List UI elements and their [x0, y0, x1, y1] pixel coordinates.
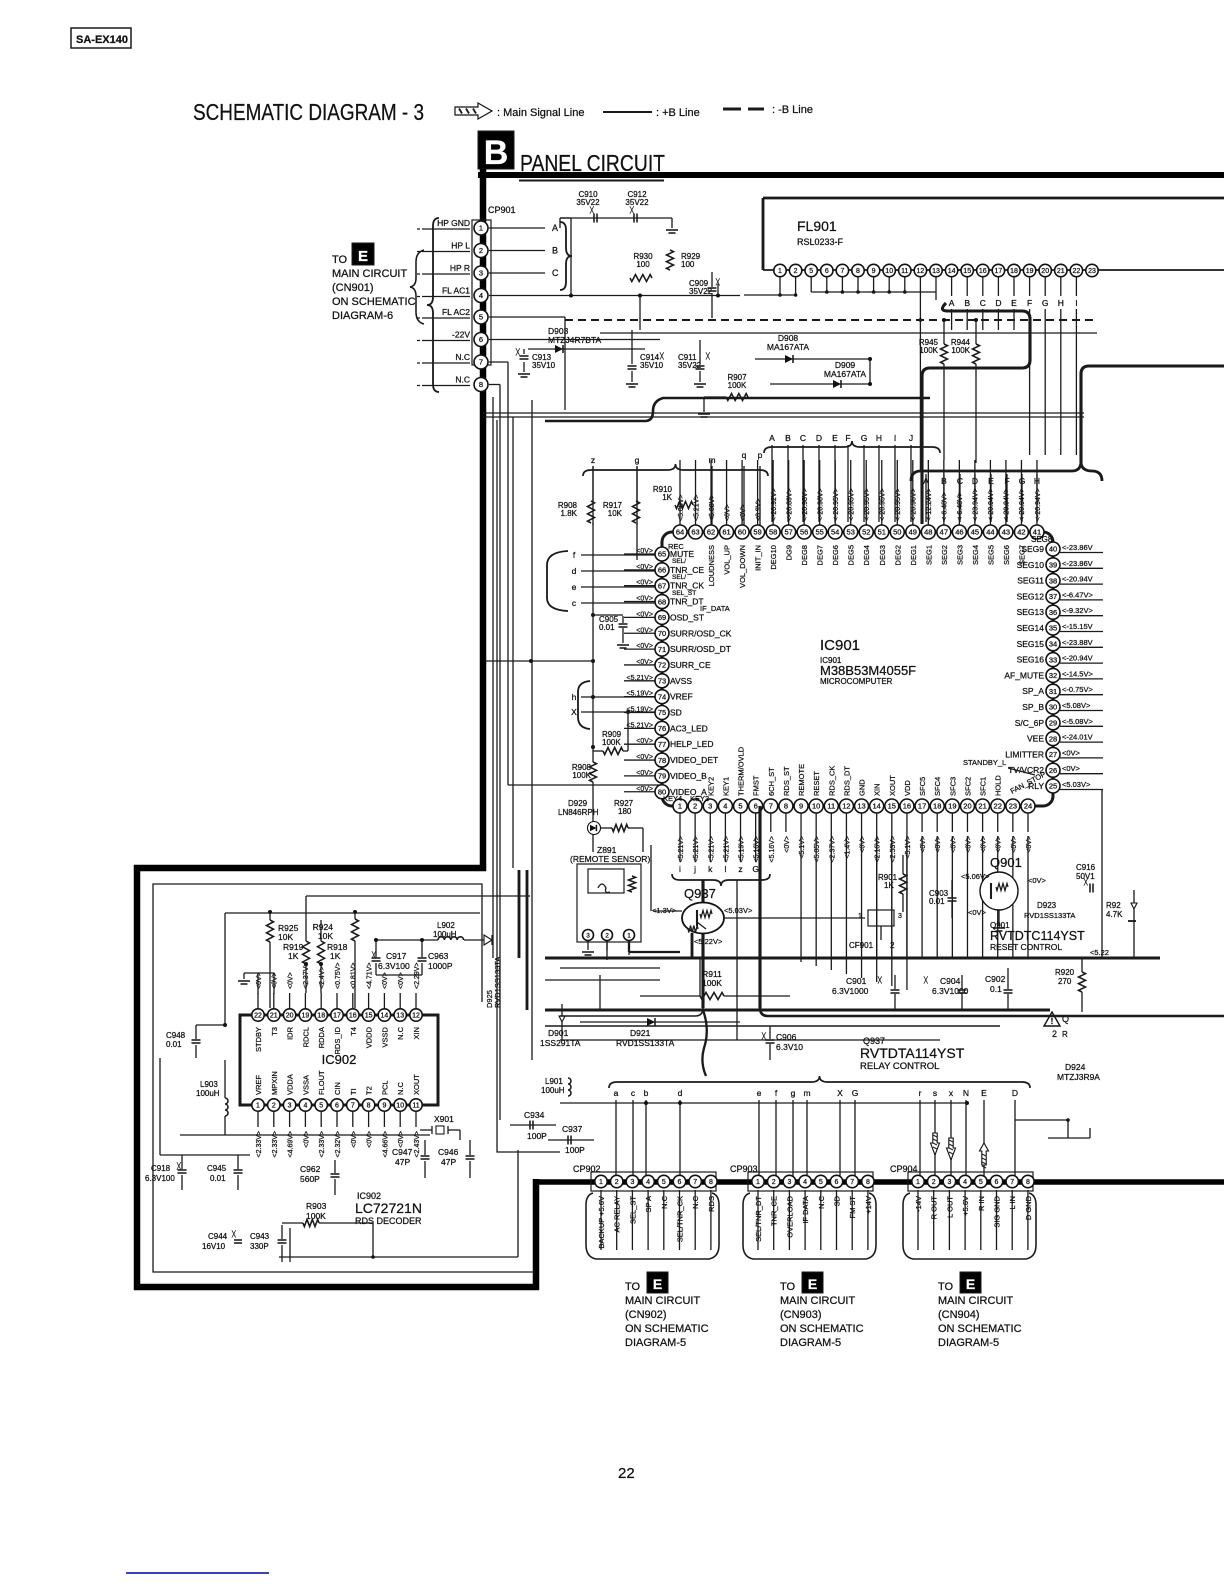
svg-text:<0V>: <0V> [287, 972, 294, 989]
svg-text:SEG16: SEG16 [1017, 655, 1045, 665]
svg-text:10K: 10K [318, 931, 333, 941]
svg-text:69: 69 [658, 613, 666, 622]
svg-text:5: 5 [479, 313, 483, 322]
svg-text:<0V>: <0V> [303, 1131, 310, 1148]
svg-text:╳: ╳ [923, 976, 928, 984]
svg-text:5: 5 [662, 1179, 666, 1186]
svg-text:l: l [724, 864, 726, 874]
svg-text:10K: 10K [278, 932, 293, 942]
svg-text:20: 20 [1041, 268, 1049, 275]
svg-text:5: 5 [319, 1103, 323, 1110]
svg-text:12: 12 [917, 268, 925, 275]
svg-text:R: R [1062, 1030, 1068, 1039]
svg-text:MAIN CIRCUIT: MAIN CIRCUIT [780, 1295, 855, 1307]
svg-text:1: 1 [858, 913, 862, 920]
svg-text:100K: 100K [951, 346, 970, 355]
svg-text:6: 6 [335, 1103, 339, 1110]
svg-text:<0V>: <0V> [351, 1131, 358, 1148]
svg-text:<0V>: <0V> [636, 643, 653, 650]
svg-text:<0V>: <0V> [636, 754, 653, 761]
svg-text:D929: D929 [568, 799, 588, 808]
svg-text:<0V>: <0V> [950, 836, 957, 853]
svg-text:42: 42 [1017, 528, 1025, 537]
svg-text:RDS_CK: RDS_CK [827, 766, 836, 796]
svg-text:2: 2 [932, 1179, 936, 1186]
svg-text:1K: 1K [662, 493, 672, 502]
svg-text:60: 60 [738, 528, 746, 537]
svg-text:C943: C943 [250, 1232, 270, 1241]
svg-text:<-20.95V>: <-20.95V> [895, 488, 902, 521]
svg-text:28: 28 [1049, 734, 1057, 743]
svg-text:LIMITTER: LIMITTER [1005, 749, 1044, 759]
svg-text:57: 57 [784, 528, 792, 537]
svg-text:5: 5 [738, 802, 742, 811]
svg-text:╳: ╳ [705, 352, 710, 360]
svg-text:5: 5 [979, 1179, 983, 1186]
svg-text:5: 5 [819, 1179, 823, 1186]
svg-text:╳: ╳ [231, 1230, 236, 1238]
svg-text:10: 10 [396, 1103, 404, 1110]
svg-text:g: g [635, 455, 640, 465]
svg-text:<2.37V>: <2.37V> [303, 963, 310, 989]
svg-text:I: I [1075, 298, 1077, 308]
svg-text:100K: 100K [702, 978, 722, 988]
svg-text:27: 27 [1049, 750, 1057, 759]
svg-text:j: j [693, 864, 696, 874]
svg-text:<0V>: <0V> [636, 580, 653, 587]
svg-text:<0V>: <0V> [636, 659, 653, 666]
svg-text:59: 59 [753, 528, 761, 537]
svg-text:2: 2 [479, 246, 483, 255]
svg-text:DEG4: DEG4 [862, 545, 871, 565]
svg-text:m: m [803, 1088, 810, 1098]
svg-text:45: 45 [971, 528, 979, 537]
svg-text:SD: SD [670, 708, 682, 718]
svg-text:<-23.86V: <-23.86V [1062, 559, 1093, 568]
svg-text:<-24.01V: <-24.01V [1062, 733, 1093, 742]
svg-text:RDS_DT: RDS_DT [842, 766, 851, 796]
svg-text:<0V>: <0V> [367, 1131, 374, 1148]
svg-text:SEG13: SEG13 [1017, 607, 1045, 617]
svg-text:C: C [552, 268, 559, 278]
svg-text:C944: C944 [208, 1232, 228, 1241]
svg-text:1: 1 [678, 802, 682, 811]
svg-text:3: 3 [708, 802, 712, 811]
svg-text:FM ST: FM ST [848, 1196, 857, 1219]
svg-text:23: 23 [1088, 268, 1096, 275]
svg-text:11: 11 [827, 802, 835, 811]
svg-text:79: 79 [658, 772, 666, 781]
svg-text:4: 4 [963, 1179, 967, 1186]
svg-text:F: F [1027, 298, 1032, 308]
svg-text:+14V: +14V [864, 1196, 873, 1214]
svg-text:26: 26 [1049, 766, 1057, 775]
svg-text:N.C: N.C [691, 1195, 700, 1209]
svg-text:24: 24 [1024, 802, 1032, 811]
svg-text:8: 8 [367, 1103, 371, 1110]
svg-text:Q937: Q937 [684, 886, 716, 901]
svg-text:N.C: N.C [455, 352, 470, 362]
svg-text:7: 7 [840, 268, 844, 275]
svg-text:DIAGRAM-5: DIAGRAM-5 [780, 1337, 841, 1349]
svg-text:G: G [752, 864, 759, 874]
svg-text:<5.03V>: <5.03V> [724, 906, 753, 915]
svg-text:6: 6 [825, 268, 829, 275]
svg-text:SEG5: SEG5 [986, 545, 995, 565]
svg-text:<0V>: <0V> [636, 786, 653, 793]
svg-text:C: C [980, 298, 986, 308]
svg-text:<-20.94V: <-20.94V [1062, 575, 1093, 584]
svg-text:<-20.95V>: <-20.95V> [833, 488, 840, 521]
svg-text:20: 20 [963, 802, 971, 811]
svg-text:8: 8 [709, 1179, 713, 1186]
svg-text:<-6.48V>: <-6.48V> [957, 492, 964, 521]
svg-text:330P: 330P [250, 1242, 269, 1251]
svg-text:G: G [852, 1088, 859, 1098]
svg-text:36: 36 [1049, 608, 1057, 617]
svg-text:STANDBY_L: STANDBY_L [963, 758, 1006, 767]
svg-text:FL901: FL901 [797, 218, 837, 234]
svg-text:50: 50 [893, 528, 901, 537]
svg-text:XOUT: XOUT [888, 775, 897, 796]
svg-text:IDR: IDR [286, 1026, 295, 1040]
svg-text:MICROCOMPUTER: MICROCOMPUTER [820, 677, 893, 686]
svg-text:8: 8 [1026, 1179, 1030, 1186]
svg-text:RDS: RDS [707, 1196, 716, 1212]
svg-text:10: 10 [885, 268, 893, 275]
svg-text:HELP_LED: HELP_LED [670, 739, 713, 749]
svg-text:<0.75V>: <0.75V> [335, 963, 342, 989]
svg-text:2: 2 [794, 268, 798, 275]
svg-text:D923: D923 [1037, 901, 1057, 910]
svg-text:GND: GND [858, 779, 867, 796]
svg-text:╳: ╳ [176, 1162, 181, 1170]
svg-text:1K: 1K [288, 951, 299, 961]
svg-text:<2.16V>: <2.16V> [875, 836, 882, 862]
svg-text:LN846RPH: LN846RPH [558, 808, 599, 817]
svg-text:<-20.94V>: <-20.94V> [988, 488, 995, 521]
svg-text:71: 71 [658, 645, 666, 654]
svg-text:<0V>: <0V> [272, 972, 279, 989]
svg-text:DEG3: DEG3 [878, 545, 887, 565]
svg-text:SEL_ST: SEL_ST [628, 1196, 637, 1224]
svg-text:16: 16 [349, 1013, 357, 1020]
svg-text:11: 11 [901, 268, 908, 275]
svg-text:<0V>: <0V> [784, 836, 791, 853]
svg-text:14: 14 [948, 268, 956, 275]
svg-text:34: 34 [1049, 640, 1057, 649]
svg-text:<2.53V>: <2.53V> [890, 836, 897, 862]
svg-text:E: E [966, 1276, 975, 1292]
svg-text:9: 9 [799, 802, 803, 811]
svg-text:BACKUP +5.6V: BACKUP +5.6V [597, 1196, 606, 1249]
svg-text:21: 21 [270, 1013, 278, 1020]
svg-text:SIG GND: SIG GND [993, 1195, 1002, 1227]
svg-text:H: H [876, 433, 882, 443]
svg-text:3: 3 [288, 1103, 292, 1110]
svg-text:<-20.94V>: <-20.94V> [1019, 488, 1026, 521]
svg-text:X901: X901 [434, 1114, 454, 1124]
svg-text:MA167ATA: MA167ATA [824, 369, 867, 379]
svg-text:61: 61 [722, 528, 730, 537]
svg-text:4: 4 [803, 1179, 807, 1186]
svg-text:8: 8 [866, 1179, 870, 1186]
svg-text:L IN: L IN [1008, 1196, 1017, 1209]
svg-text:e: e [572, 582, 577, 592]
svg-text:<0V>: <0V> [996, 836, 1003, 853]
svg-text:<-9.32V>: <-9.32V> [1062, 606, 1093, 615]
svg-text:<0V>: <0V> [968, 908, 987, 917]
svg-text:e: e [757, 1088, 762, 1098]
svg-text:180: 180 [618, 807, 632, 816]
svg-text:<5.19V>: <5.19V> [627, 707, 653, 714]
svg-text:<5.1V>: <5.1V> [905, 836, 912, 859]
svg-text:9: 9 [872, 268, 876, 275]
svg-text:R903: R903 [306, 1201, 327, 1211]
svg-text:╳: ╳ [1083, 878, 1088, 886]
svg-text:29: 29 [1049, 719, 1057, 728]
svg-text:<0V>: <0V> [256, 972, 263, 989]
svg-text:3: 3 [630, 1179, 634, 1186]
svg-text:6CH_ST: 6CH_ST [767, 767, 776, 796]
svg-text:39: 39 [1049, 561, 1057, 570]
svg-text:SFC5: SFC5 [918, 777, 927, 796]
svg-text:<-20.89V>: <-20.89V> [786, 488, 793, 521]
svg-text:E: E [808, 1276, 817, 1292]
svg-text:FMST: FMST [752, 775, 761, 796]
svg-text:H: H [1058, 298, 1064, 308]
svg-text:<-20.95V>: <-20.95V> [864, 488, 871, 521]
svg-text:L OUT: L OUT [945, 1196, 954, 1218]
svg-text:<-0.75V>: <-0.75V> [1062, 685, 1093, 694]
svg-text:<5.21V>: <5.21V> [723, 836, 730, 862]
svg-text:RSL0233-F: RSL0233-F [797, 237, 844, 247]
svg-text:DIAGRAM-5: DIAGRAM-5 [625, 1337, 686, 1349]
svg-text:<5.21V>: <5.21V> [708, 836, 715, 862]
svg-text:SEL_ST: SEL_ST [672, 590, 696, 597]
svg-text:IF_DATA: IF_DATA [700, 604, 730, 613]
svg-text:66: 66 [658, 566, 666, 575]
svg-text:17: 17 [333, 1013, 341, 1020]
svg-text:LOUDNESS: LOUDNESS [707, 545, 716, 586]
svg-text:VREF: VREF [670, 692, 693, 702]
svg-text:7: 7 [1010, 1179, 1014, 1186]
svg-text:16: 16 [979, 268, 987, 275]
svg-text:VDDA: VDDA [286, 1074, 295, 1095]
svg-text:1: 1 [256, 1103, 260, 1110]
svg-text:<5.08V>: <5.08V> [678, 495, 685, 521]
svg-text:VIDEO_DET: VIDEO_DET [670, 755, 718, 765]
svg-text:THERM/OVLD: THERM/OVLD [737, 746, 746, 796]
svg-text:AC RELAY: AC RELAY [613, 1196, 622, 1233]
svg-text:HP R: HP R [450, 263, 470, 273]
svg-text:<2.37V>: <2.37V> [829, 836, 836, 862]
svg-text:1: 1 [916, 1179, 920, 1186]
svg-text:<1.4V>: <1.4V> [844, 836, 851, 859]
svg-text:<-20.96V>: <-20.96V> [911, 488, 918, 521]
svg-text:22: 22 [254, 1013, 262, 1020]
svg-text:<4.71V>: <4.71V> [366, 963, 373, 989]
svg-text:22: 22 [1073, 268, 1081, 275]
svg-text:63: 63 [691, 528, 699, 537]
svg-text:<5.08V>: <5.08V> [709, 495, 716, 521]
svg-text:E: E [358, 248, 368, 265]
svg-text:R IN: R IN [977, 1196, 986, 1211]
svg-text:╳: ╳ [589, 206, 594, 214]
svg-text:SEG1: SEG1 [924, 545, 933, 565]
svg-text:1.8K: 1.8K [561, 509, 578, 518]
svg-text:6: 6 [995, 1179, 999, 1186]
svg-text:<0V>: <0V> [935, 836, 942, 853]
svg-text:SCHEMATIC DIAGRAM - 3: SCHEMATIC DIAGRAM - 3 [193, 99, 424, 125]
svg-text:40: 40 [1049, 545, 1057, 554]
svg-text:D901: D901 [548, 1028, 569, 1038]
svg-text:D GND: D GND [1024, 1195, 1033, 1220]
svg-text:100P: 100P [527, 1131, 547, 1141]
svg-text:6.3V1000: 6.3V1000 [832, 986, 869, 996]
svg-text:SEL/: SEL/ [672, 558, 686, 565]
svg-text:TO: TO [938, 1281, 954, 1293]
svg-text:1K: 1K [330, 951, 341, 961]
svg-text:-14V: -14V [914, 1196, 923, 1212]
svg-text:<0.9V>: <0.9V> [755, 498, 762, 521]
svg-text:0.01: 0.01 [210, 1174, 226, 1183]
svg-text:g: g [791, 1088, 796, 1098]
svg-text:C904: C904 [940, 976, 961, 986]
svg-text:3: 3 [898, 913, 902, 920]
svg-text:TI: TI [349, 1088, 358, 1095]
svg-text:47: 47 [940, 528, 948, 537]
svg-text:SEG11: SEG11 [1017, 576, 1044, 586]
svg-text:FL AC2: FL AC2 [442, 307, 470, 317]
svg-text:2: 2 [1052, 1029, 1057, 1039]
svg-text:I: I [894, 433, 896, 443]
svg-text:270: 270 [1058, 977, 1072, 986]
svg-text:i: i [679, 864, 681, 874]
svg-text:d: d [572, 566, 577, 576]
svg-text:SP_A: SP_A [1022, 686, 1044, 696]
svg-text:<0V>: <0V> [920, 836, 927, 853]
svg-text:E: E [981, 1088, 987, 1098]
svg-text:G: G [861, 433, 868, 443]
svg-text:C: C [800, 433, 806, 443]
svg-text:D: D [1012, 1088, 1018, 1098]
svg-text:19: 19 [1026, 268, 1034, 275]
svg-text:31: 31 [1049, 687, 1057, 696]
svg-text:OSD_ST: OSD_ST [670, 612, 704, 622]
svg-text:DEG2: DEG2 [893, 545, 902, 565]
svg-text:35V22: 35V22 [625, 198, 649, 207]
svg-text:SEL/TNR_DT: SEL/TNR_DT [754, 1196, 763, 1242]
svg-text:B: B [964, 298, 970, 308]
svg-text:46: 46 [955, 528, 963, 537]
svg-text:<-14.5V>: <-14.5V> [1062, 669, 1093, 678]
svg-text:DEG1: DEG1 [909, 545, 918, 565]
svg-text:4.7K: 4.7K [1106, 910, 1123, 919]
svg-text:72: 72 [658, 661, 666, 670]
svg-text:C902: C902 [985, 974, 1006, 984]
svg-text:20: 20 [286, 1013, 294, 1020]
svg-text:SURR_CE: SURR_CE [670, 660, 711, 670]
svg-text:+5.6V: +5.6V [961, 1196, 970, 1216]
svg-text:CIN: CIN [333, 1082, 342, 1095]
svg-text:SEG4: SEG4 [971, 545, 980, 565]
svg-text:13: 13 [396, 1013, 404, 1020]
svg-text:R920: R920 [1055, 968, 1075, 977]
svg-text:z: z [591, 455, 595, 465]
svg-text:S/C_6P: S/C_6P [1015, 718, 1045, 728]
svg-text:B: B [785, 433, 791, 443]
svg-text:23: 23 [1009, 802, 1017, 811]
svg-text:2: 2 [272, 1103, 276, 1110]
svg-text:D921: D921 [630, 1028, 651, 1038]
svg-text:<0V>: <0V> [636, 738, 653, 745]
svg-text:47P: 47P [395, 1157, 410, 1167]
svg-text:RDCL: RDCL [301, 1027, 310, 1047]
svg-text:VREF: VREF [254, 1075, 263, 1095]
svg-text:0.01: 0.01 [599, 623, 615, 632]
svg-text:1: 1 [756, 1179, 760, 1186]
svg-text:C901: C901 [846, 976, 867, 986]
svg-text:3: 3 [586, 932, 590, 939]
svg-text:6: 6 [754, 802, 758, 811]
svg-text:35V10: 35V10 [532, 361, 556, 370]
svg-text:DEG7: DEG7 [816, 545, 825, 565]
svg-text:0.01: 0.01 [166, 1040, 182, 1049]
svg-text:C934: C934 [524, 1110, 545, 1120]
svg-text:7: 7 [693, 1179, 697, 1186]
svg-text:<5.05V>: <5.05V> [814, 836, 821, 862]
svg-text:<5.22V>: <5.22V> [694, 937, 723, 946]
svg-text:7: 7 [850, 1179, 854, 1186]
svg-text:DIAGRAM-5: DIAGRAM-5 [938, 1337, 999, 1349]
svg-text:35: 35 [1049, 624, 1057, 633]
svg-text:C916: C916 [1076, 863, 1096, 872]
svg-text:RDS_ID: RDS_ID [333, 1026, 342, 1054]
svg-text:10: 10 [812, 802, 820, 811]
svg-text:4: 4 [303, 1103, 307, 1110]
svg-text:VOL_UP: VOL_UP [723, 545, 732, 575]
svg-text:C906: C906 [776, 1032, 797, 1042]
svg-text:C917: C917 [386, 951, 407, 961]
svg-text:15: 15 [888, 802, 896, 811]
svg-text:RVD1SS133TA: RVD1SS133TA [616, 1038, 675, 1048]
svg-text:21: 21 [978, 802, 986, 811]
svg-text:G: G [1042, 298, 1049, 308]
svg-text:13: 13 [932, 268, 940, 275]
svg-text:<-12.24V>: <-12.24V> [926, 488, 933, 521]
svg-text:A: A [552, 223, 558, 233]
svg-text:<2.4V>: <2.4V> [319, 966, 326, 989]
svg-text:17: 17 [995, 268, 1003, 275]
svg-text:SURR/OSD_CK: SURR/OSD_CK [670, 628, 732, 638]
svg-text:<5.16V>: <5.16V> [769, 836, 776, 862]
svg-text:14: 14 [381, 1013, 389, 1020]
svg-text:PCL: PCL [380, 1080, 389, 1095]
svg-text:RESET: RESET [812, 771, 821, 796]
svg-text:<-20.95V>: <-20.95V> [880, 488, 887, 521]
svg-text:6: 6 [479, 335, 483, 344]
svg-text:65: 65 [658, 550, 666, 559]
svg-text:<0V>: <0V> [398, 1131, 405, 1148]
svg-text:64: 64 [676, 528, 684, 537]
svg-text:RDS_ST: RDS_ST [782, 766, 791, 796]
svg-text:ON SCHEMATIC: ON SCHEMATIC [938, 1323, 1022, 1335]
svg-text:77: 77 [658, 740, 666, 749]
svg-text:T4: T4 [349, 1027, 358, 1036]
svg-text:DEG8: DEG8 [800, 545, 809, 565]
svg-text:100K: 100K [919, 346, 938, 355]
